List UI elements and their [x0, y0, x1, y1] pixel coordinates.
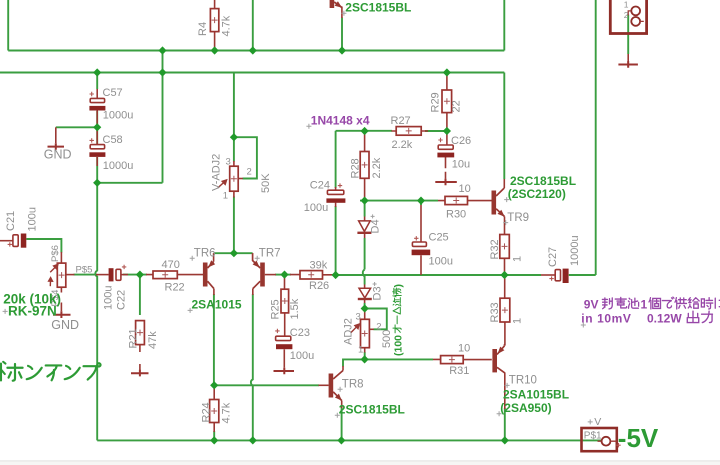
TR6 collector stub — [213, 289, 215, 295]
wire TR10 collector to bottom rail — [504, 408, 506, 440]
wire TR7 collector column with jog at TR8 base line — [251, 294, 253, 440]
resistor R26 39k — [300, 271, 323, 279]
wire R21 top lead — [139, 275, 141, 315]
wire mid rail y=200.6 — [360, 200, 438, 202]
resistor R28 2.2k — [360, 152, 369, 179]
svg-text:470: 470 — [162, 259, 180, 271]
resistor R31 10 — [441, 356, 464, 364]
svg-text:100u: 100u — [304, 202, 328, 214]
capacitor C26 10u — [437, 138, 454, 158]
C27 left lead — [541, 274, 555, 276]
wire TR6/TR7 emitter rail — [214, 252, 253, 254]
svg-text:C22: C22 — [116, 290, 128, 310]
capacitor C57 1000u — [89, 92, 105, 111]
V-ADJ2 pin1 lead — [233, 191, 235, 197]
wire top rail 1 — [8, 50, 504, 52]
svg-text:R21: R21 — [128, 328, 140, 348]
ground at C23 — [274, 368, 295, 375]
svg-text:C23: C23 — [290, 327, 310, 339]
potentiometer P$ 20k body — [57, 263, 66, 287]
svg-text:1.5k: 1.5k — [289, 298, 301, 319]
svg-text:1: 1 — [512, 318, 524, 324]
potentiometer V-ADJ2 50K body — [230, 166, 239, 191]
svg-text:TR8: TR8 — [342, 378, 364, 390]
svg-text:C26: C26 — [451, 135, 471, 147]
wire output rail y=275 with jog at diode column — [336, 274, 541, 276]
wire C58 bottom to x162 link — [97, 182, 162, 184]
TR9 emitter lead to R32 — [504, 217, 506, 235]
R24 leads — [213, 385, 215, 432]
R27 leads — [392, 130, 429, 132]
resistor R4 4.7k — [210, 9, 218, 32]
R33 leads — [504, 275, 506, 346]
transistor TR10 2SA1015BL (PNP) — [492, 346, 504, 373]
svg-text:39k: 39k — [310, 259, 328, 271]
R32 bottom lead — [504, 258, 506, 275]
svg-text:R33: R33 — [489, 302, 501, 322]
wire ADJ2 wiper loop — [365, 309, 387, 330]
R26 leads — [290, 274, 336, 276]
capacitor C21 100u — [8, 234, 27, 248]
svg-text:10u: 10u — [452, 158, 470, 170]
wire diode column D4-D3 — [364, 201, 366, 309]
ground at C57/C58 — [48, 143, 65, 150]
svg-text:-5V: -5V — [618, 423, 659, 453]
wire from top transistor emitter to rail1 — [341, 18, 343, 51]
title (headphone amp, cut at left) — [1, 362, 101, 381]
svg-text:2.2k: 2.2k — [371, 157, 383, 178]
wire long vertical x=97.2 with jog at input line — [95, 157, 97, 440]
svg-text:C25: C25 — [429, 231, 449, 243]
capacitor C23 100u — [275, 329, 292, 350]
svg-text:P$5: P$5 — [76, 264, 93, 275]
adjust arrow of pot P$ — [49, 278, 53, 287]
wire TR8 emitter to bottom rail — [341, 407, 343, 440]
C21 lead from left edge — [0, 240, 13, 242]
svg-text:1000u: 1000u — [569, 235, 581, 266]
connector P$1 (-5V supply) — [582, 428, 621, 451]
D4 pin stubs — [364, 217, 366, 239]
TR9 collector lead — [503, 179, 505, 188]
capacitor C25 100u — [412, 236, 431, 255]
wire R24 bottom lead — [213, 431, 215, 440]
ADJ2 pin3 lead — [364, 309, 366, 320]
capacitor C22 100u — [109, 265, 127, 282]
TR8 emitter lead down — [341, 401, 343, 409]
svg-text:R26: R26 — [309, 280, 329, 292]
TR7 emitter diag start — [252, 252, 254, 255]
svg-text:2: 2 — [624, 10, 629, 20]
wire R27 to C26 junction — [425, 130, 447, 132]
svg-text:2.2k: 2.2k — [392, 139, 413, 151]
svg-text:TR6: TR6 — [194, 247, 216, 259]
purple note line 1: 9V battery supply — [584, 297, 720, 312]
svg-text:1000u: 1000u — [103, 110, 134, 122]
ground at top connector — [618, 61, 638, 68]
C58 leads — [96, 127, 98, 166]
svg-text:C58: C58 — [103, 134, 123, 146]
svg-text:TR7: TR7 — [259, 247, 281, 259]
wire TR8 base line — [214, 384, 319, 386]
R28 leads — [364, 131, 366, 201]
svg-text:47k: 47k — [147, 331, 159, 349]
svg-text:R27: R27 — [391, 115, 411, 127]
capacitor C58 1000u — [89, 138, 105, 157]
svg-text:2SA1015: 2SA1015 — [192, 297, 242, 311]
C23 bottom lead — [283, 349, 285, 367]
svg-text:R25: R25 — [270, 299, 282, 319]
arrow of pot V-ADJ2 — [218, 180, 227, 188]
svg-text:2SA1015BL: 2SA1015BL — [503, 387, 569, 401]
svg-text:RK-97N: RK-97N — [8, 303, 57, 318]
diode D4 1N4148 — [357, 221, 371, 233]
C24 bottom lead — [335, 203, 337, 207]
wire pot wiper P$5 to C22 — [74, 274, 96, 276]
R30 leads — [438, 200, 492, 202]
R21 bottom lead to gnd — [139, 345, 141, 370]
wire rail2 right drop to TR9 collector — [503, 73, 505, 180]
TR8 base red lead — [319, 384, 329, 386]
svg-text:0.12W: 0.12W — [647, 311, 682, 325]
svg-text:R24: R24 — [201, 402, 213, 422]
svg-text:2: 2 — [247, 167, 252, 178]
svg-text:R28: R28 — [350, 158, 362, 178]
transistor TR7 2SA1015 (PNP, mirrored) — [253, 253, 265, 288]
wire TR6 collector column — [213, 294, 215, 385]
svg-text:D4: D4 — [370, 219, 382, 233]
wire C25 link small segment — [420, 201, 422, 205]
svg-text:GND: GND — [44, 147, 72, 161]
R31 leads — [433, 358, 492, 360]
wire bottom rail — [97, 439, 601, 441]
svg-text:2SC1815BL: 2SC1815BL — [510, 174, 576, 188]
ground at pot P$4 — [53, 311, 71, 318]
TR10 emitter lead from R33 — [504, 344, 506, 346]
ADJ2 pin1 lead — [364, 348, 366, 353]
resistor R27 2.2k — [396, 127, 421, 136]
V-ADJ2 pin3 lead — [233, 161, 235, 166]
svg-text:100u: 100u — [290, 350, 314, 362]
wire C57-C58 link — [96, 111, 98, 145]
wire vertical x=162.5 from rail1 to C58 bottom level — [162, 51, 164, 183]
wire C22 right to R22 — [123, 274, 147, 276]
P$4 pin lead — [60, 287, 62, 311]
C26 top lead — [446, 131, 448, 145]
resistor R25 1.5k — [281, 289, 289, 313]
wire TR8 collector riser and rail to ADJ2/R31 — [343, 359, 433, 366]
capacitor C27 1000u — [549, 269, 568, 283]
svg-text:1: 1 — [512, 256, 524, 262]
connector top-right (headphone jack) — [610, 0, 646, 34]
resistor R29 22 — [442, 90, 452, 113]
resistor R32 1 — [500, 235, 510, 259]
svg-text:R30: R30 — [446, 208, 466, 220]
potentiometer ADJ2 500 body — [361, 319, 370, 347]
svg-text:10: 10 — [458, 343, 470, 355]
svg-text:100u: 100u — [429, 255, 453, 267]
top connector gnd lead — [627, 54, 629, 68]
R25 leads — [284, 275, 286, 336]
P$5 wiper lead — [66, 274, 75, 276]
svg-text:V-ADJ2: V-ADJ2 — [211, 154, 223, 191]
svg-text:TR10: TR10 — [509, 374, 537, 386]
green rotated note (100 ohm vicinity) — [392, 284, 404, 356]
svg-text:V: V — [594, 416, 601, 428]
resistor R22 470 — [153, 271, 177, 279]
wire pot V-ADJ2 wiper loop — [234, 137, 257, 178]
svg-text:C21: C21 — [5, 211, 17, 231]
wire top connector pin to gnd — [627, 15, 629, 55]
R22 leads — [146, 274, 203, 276]
R4 leads — [214, 0, 216, 51]
transistor TR8 2SC1815BL (NPN) — [329, 371, 343, 401]
wire TR7 base to R26 — [275, 274, 291, 276]
small gray origin crosses — [3, 11, 593, 425]
wire C24 column top — [335, 131, 337, 188]
arrow of pot ADJ2 — [351, 324, 359, 333]
svg-text:R22: R22 — [165, 282, 185, 294]
resistor R30 10 — [445, 196, 468, 204]
wire rail1 right riser — [503, 0, 505, 51]
ADJ2 wiper lead — [369, 328, 373, 330]
svg-text:): ) — [392, 284, 404, 288]
TR7 base lead — [265, 274, 276, 276]
svg-text:1000u: 1000u — [103, 160, 134, 172]
wire C24 column bottom — [335, 206, 337, 275]
GND lead of C57/C58 — [55, 127, 57, 143]
diode D3 1N4148 — [358, 288, 372, 299]
C25 top lead — [420, 205, 422, 275]
wire pot V-ADJ2 top lead — [233, 73, 235, 162]
top transistor fragment leads — [341, 7, 343, 19]
svg-text:in 10mV: in 10mV — [581, 311, 631, 325]
R29 leads — [446, 73, 448, 132]
svg-text:P$1: P$1 — [584, 431, 602, 442]
TR7 collector stub — [252, 289, 254, 295]
wire top-left vertical drop — [7, 0, 9, 51]
D3 pin stubs — [364, 285, 366, 304]
svg-text:R4: R4 — [197, 22, 209, 36]
svg-text:D3: D3 — [372, 286, 384, 300]
TR6 emitter riser — [213, 253, 215, 262]
C24 top lead — [335, 187, 337, 190]
svg-text:10: 10 — [459, 183, 471, 195]
wire top mid rail y=131 — [336, 130, 392, 132]
svg-text:4.7k: 4.7k — [221, 15, 233, 36]
svg-text:(2SC2120): (2SC2120) — [508, 187, 566, 201]
capacitor C24 100u — [326, 183, 345, 202]
svg-text:1: 1 — [358, 345, 363, 356]
svg-text:3: 3 — [356, 312, 361, 323]
svg-text:100u: 100u — [27, 207, 39, 231]
wire C57 top lead — [96, 73, 98, 90]
svg-text:22: 22 — [451, 100, 463, 112]
svg-text:500: 500 — [381, 330, 393, 348]
svg-text:1: 1 — [624, 0, 629, 9]
C26 bottom lead — [445, 157, 447, 179]
svg-text:3: 3 — [226, 157, 231, 168]
ground at R21 — [131, 370, 149, 377]
wire vertical x=252.8 top — [252, 0, 254, 51]
svg-text:GND: GND — [51, 318, 79, 332]
resistor R33 1 — [500, 298, 510, 322]
P$6 pin lead — [60, 252, 62, 263]
resistor R21 47k — [136, 321, 145, 345]
svg-text:1: 1 — [223, 191, 228, 202]
resistor R24 4.7k — [210, 400, 219, 423]
wire C21 to P$6 of pot — [26, 239, 61, 253]
svg-text:TR9: TR9 — [507, 212, 529, 224]
svg-text:1: 1 — [641, 298, 648, 312]
svg-text:100u: 100u — [103, 286, 115, 310]
V-ADJ2 wiper lead — [238, 178, 243, 180]
C22 right lead — [121, 274, 128, 276]
TR10 collector lead down — [504, 373, 506, 410]
wire C27 right corner up — [569, 0, 596, 275]
purple note line 2: in 10mV / 0.12W output — [581, 311, 712, 325]
svg-text:R29: R29 — [430, 92, 442, 112]
svg-text:2: 2 — [376, 322, 381, 333]
svg-text:R31: R31 — [449, 365, 469, 377]
svg-text:2SC1815BL: 2SC1815BL — [345, 0, 411, 14]
svg-text:(2SA950): (2SA950) — [500, 401, 551, 415]
svg-text:(100: (100 — [392, 335, 404, 356]
svg-text:9V: 9V — [584, 298, 599, 312]
arrow of pot P$ — [50, 264, 58, 272]
svg-text:4.7k: 4.7k — [221, 402, 233, 423]
transistor TR9 2SC1815BL (NPN) — [492, 188, 505, 217]
wire top rail 2 — [0, 72, 504, 74]
top transistor fragment (cut at top edge) — [330, 0, 343, 8]
wire GND stub from C57/C58 midpoint — [56, 126, 97, 128]
svg-text:50K: 50K — [260, 173, 272, 193]
diode column jog over output rail — [363, 270, 365, 285]
svg-text:1N4148 x4: 1N4148 x4 — [311, 114, 370, 128]
C22 left lead — [96, 274, 109, 276]
svg-text:C27: C27 — [547, 247, 559, 267]
svg-text:R32: R32 — [489, 239, 501, 259]
TR8 collector lead up — [342, 366, 344, 371]
bottom window edge strip — [0, 461, 720, 465]
svg-text:C57: C57 — [103, 87, 123, 99]
wire ADJ2 pin1 lead — [364, 352, 366, 359]
svg-text:P$6: P$6 — [50, 245, 61, 262]
ground at C26 — [435, 179, 457, 186]
svg-text:2SC1815BL: 2SC1815BL — [339, 402, 405, 416]
transistor TR6 2SA1015 (PNP) — [203, 260, 215, 288]
C57 leads — [96, 89, 98, 127]
svg-text:C24: C24 — [310, 179, 330, 191]
wire pot V-ADJ2 bottom to emitter rail — [233, 197, 235, 254]
resistor origin crosses — [59, 17, 508, 414]
svg-text:ADJ2: ADJ2 — [343, 318, 355, 345]
